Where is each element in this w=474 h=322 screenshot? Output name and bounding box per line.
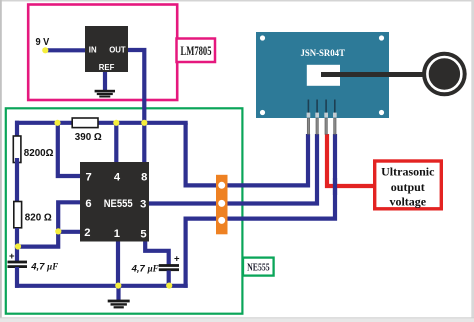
wire: node C down to pin 8: [142, 123, 146, 165]
ground (regulator REF): [95, 90, 115, 98]
wire: sensor GND up from rail and right to pin 4 of sensor: [186, 134, 335, 288]
svg-text:820 Ω: 820 Ω: [25, 212, 52, 223]
connector J1 (orange): [216, 175, 228, 235]
svg-text:6: 6: [85, 198, 91, 210]
label LM7805: [177, 39, 216, 63]
wire: 5V feed to sensor pin1: [186, 123, 308, 186]
wire: left vertical from rail to 8200: [15, 121, 19, 140]
resistor R1 390Ω body: [72, 118, 98, 128]
svg-text:LM7805: LM7805: [181, 44, 212, 58]
wire: REF down to ground: [103, 71, 107, 91]
wire: node D down to C1: [15, 247, 19, 262]
wire: 9V node to IN: [45, 48, 87, 52]
ground (main): [108, 300, 130, 309]
wire: between 8200 and 820: [15, 158, 19, 204]
label NE555 (green tag): [243, 258, 274, 276]
resistor R2 8200Ω body: [13, 136, 21, 163]
svg-text:4: 4: [114, 172, 121, 184]
wire: ground rail: [15, 284, 188, 288]
svg-text:NE555: NE555: [247, 262, 270, 274]
node A (rail / pin7 branch): [54, 120, 60, 126]
svg-text:4,7 µF: 4,7 µF: [131, 264, 159, 275]
wire: VCC rail: [15, 121, 188, 125]
wire: transducer cable (black): [321, 72, 428, 77]
svg-text:3: 3: [140, 198, 146, 210]
svg-text:JSN-SR04T: JSN-SR04T: [300, 48, 345, 59]
svg-text:5: 5: [140, 228, 146, 240]
svg-text:4,7 µF: 4,7 µF: [30, 261, 58, 272]
svg-text:voltage: voltage: [389, 195, 426, 209]
node C (rail / regulator OUT): [141, 120, 147, 126]
wire: red output to box: [327, 134, 375, 186]
wire: node D right and up to node E: [17, 232, 58, 247]
svg-text:9 V: 9 V: [36, 37, 50, 48]
wire: 820 bottom to node D: [15, 228, 19, 248]
svg-text:2: 2: [84, 227, 90, 239]
wire: C2 to ground rail: [167, 271, 171, 286]
wire: C1 to ground rail: [15, 267, 19, 288]
wire: sensor pin4 blue over red (redraw): [333, 178, 337, 195]
regulator U1 LM7805 body: [85, 26, 128, 72]
node G (rail / C2): [166, 283, 172, 289]
svg-text:1: 1: [114, 228, 120, 240]
node: 9V input: [42, 47, 48, 53]
svg-text:REF: REF: [99, 63, 115, 72]
transducer (ultrasonic, black disc): [422, 52, 467, 97]
svg-text:OUT: OUT: [109, 46, 126, 55]
wire: pin 6 branch: [58, 202, 82, 232]
svg-text:+: +: [174, 253, 180, 264]
resistor R3 820Ω body: [14, 202, 22, 228]
header pins of sensor: [307, 118, 336, 134]
svg-text:Ultrasonic: Ultrasonic: [381, 164, 435, 178]
wire: pin 2 branch: [58, 230, 82, 234]
node E (pin2/pin6 junction): [55, 228, 61, 234]
label box: Ultrasonic output voltage: [375, 161, 442, 209]
power supply box (pink): [28, 5, 177, 101]
svg-text:output: output: [391, 180, 425, 194]
wire: OUT right then down to VCC rail: [127, 50, 144, 124]
op IC U2 NE555 body: [80, 162, 149, 242]
svg-text:NE555: NE555: [104, 198, 133, 210]
wire: chip pin 5 to C2: [145, 240, 169, 265]
svg-text:8200Ω: 8200Ω: [24, 148, 54, 159]
main circuit box (green): [6, 108, 243, 313]
capacitor C2 4,7uF: [159, 253, 180, 271]
node B (rail / pin4 branch): [113, 120, 119, 126]
wire: node B down to pin 4: [114, 123, 118, 165]
svg-text:7: 7: [85, 172, 91, 184]
svg-text:8: 8: [141, 172, 147, 184]
wire: ground stub: [116, 286, 120, 301]
node D (820 bottom / C1): [15, 243, 21, 249]
svg-text:IN: IN: [89, 46, 97, 55]
node F (rail / pin1 / ground symbol): [115, 283, 121, 289]
board pin stubs: [308, 100, 334, 114]
wire: chip pin 3 output to sensor pin 2: [147, 134, 317, 204]
wire: node A down and right to pin 7: [58, 123, 82, 176]
capacitor C1 4,7uF: [8, 251, 28, 268]
svg-text:+: +: [9, 251, 15, 262]
svg-text:390 Ω: 390 Ω: [75, 132, 102, 143]
sensor board JSN-SR04T: [256, 32, 389, 118]
wire: chip pin 1 down to rail: [116, 240, 120, 286]
